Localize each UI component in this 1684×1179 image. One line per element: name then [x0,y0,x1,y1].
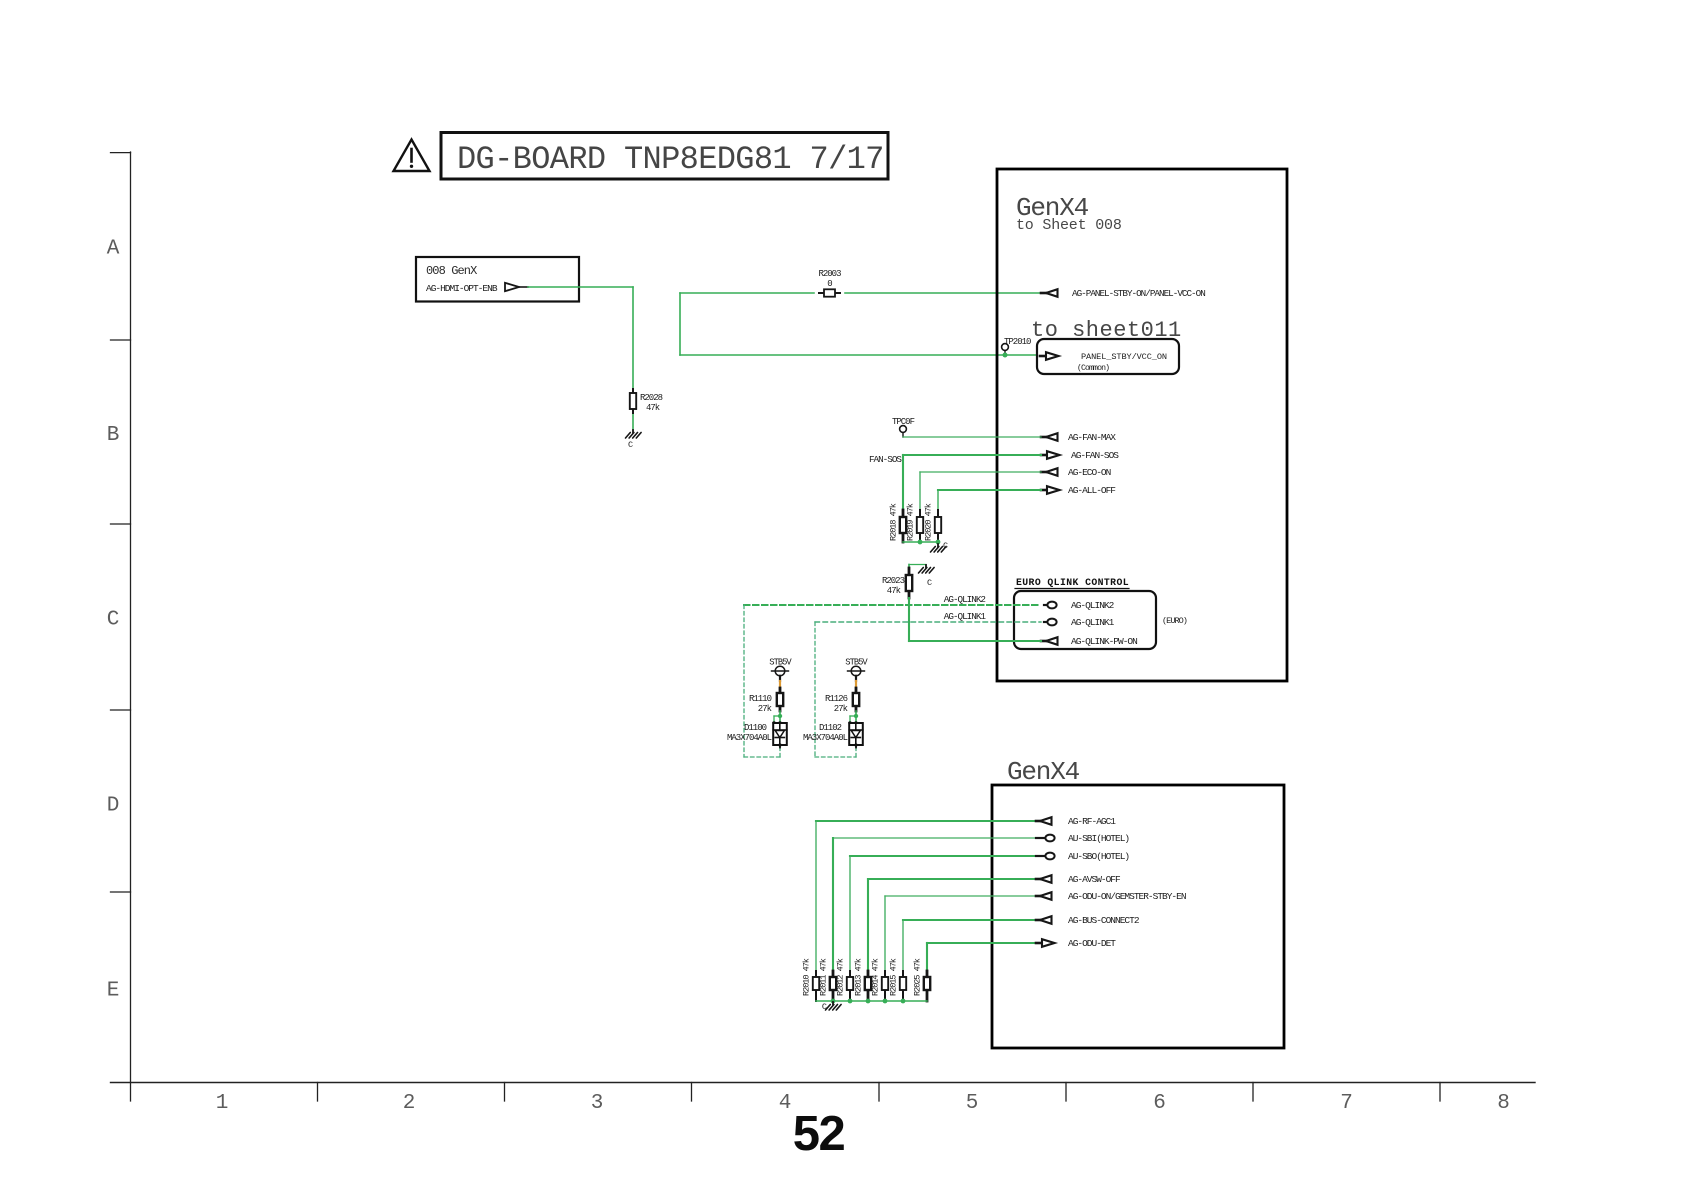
svg-text:to Sheet 008: to Sheet 008 [1016,217,1122,234]
svg-text:AG-AVSW-OFF: AG-AVSW-OFF [1068,874,1121,885]
svg-text:EURO QLINK CONTROL: EURO QLINK CONTROL [1016,577,1129,588]
svg-text:AG-FAN-MAX: AG-FAN-MAX [1068,432,1116,443]
svg-text:1: 1 [216,1092,229,1115]
svg-text:R2013 47k: R2013 47k [854,958,864,996]
svg-text:AG-QLINK2: AG-QLINK2 [944,594,986,605]
svg-text:C: C [628,440,633,450]
svg-text:MA3X704A0L: MA3X704A0L [803,733,848,743]
svg-text:E: E [107,980,120,1003]
svg-text:AG-QLINK-PW-ON: AG-QLINK-PW-ON [1071,636,1137,647]
svg-text:FAN-SOS: FAN-SOS [869,454,902,465]
svg-text:R2011 47k: R2011 47k [819,958,829,996]
svg-text:B: B [107,424,120,447]
svg-text:27k: 27k [758,704,772,714]
svg-text:PANEL_STBY/VCC_ON: PANEL_STBY/VCC_ON [1081,352,1167,362]
svg-text:R1110: R1110 [749,694,772,704]
svg-text:AG-ECO-ON: AG-ECO-ON [1068,467,1111,478]
svg-text:R2018 47k: R2018 47k [889,503,899,541]
svg-text:8: 8 [1497,1092,1510,1115]
svg-text:R2012 47k: R2012 47k [836,958,846,996]
svg-text:47k: 47k [887,586,901,596]
svg-text:R2023: R2023 [882,576,905,586]
svg-text:3: 3 [591,1092,604,1115]
svg-text:52: 52 [793,1107,845,1161]
svg-text:C: C [927,578,932,588]
svg-text:TPC0F: TPC0F [892,417,915,427]
svg-text:R2025 47k: R2025 47k [913,958,923,996]
svg-text:TP2010: TP2010 [1004,337,1031,347]
svg-text:D1100: D1100 [744,723,767,733]
svg-text:R2014 47k: R2014 47k [871,958,881,996]
svg-text:0: 0 [827,279,832,289]
svg-text:AU-SBI(HOTEL): AU-SBI(HOTEL) [1068,833,1129,844]
svg-text:AG-HDMI-OPT-ENB: AG-HDMI-OPT-ENB [426,283,498,294]
svg-text:MA3X704A0L: MA3X704A0L [727,733,772,743]
svg-text:R2003: R2003 [818,269,841,279]
svg-text:R1126: R1126 [825,694,848,704]
svg-text:D1102: D1102 [819,723,842,733]
svg-text:C: C [822,1002,827,1012]
svg-text:AG-ALL-OFF: AG-ALL-OFF [1068,485,1116,496]
svg-text:AG-QLINK2: AG-QLINK2 [1071,600,1115,611]
svg-text:AG-QLINK1: AG-QLINK1 [944,611,987,622]
svg-text:(EURO): (EURO) [1162,616,1187,626]
svg-text:47k: 47k [646,403,660,413]
svg-text:AG-QLINK1: AG-QLINK1 [1071,617,1115,628]
svg-text:4: 4 [779,1092,792,1115]
svg-text:C: C [107,609,120,632]
svg-text:A: A [107,238,120,261]
svg-text:AG-ODU-ON/GEMSTER-STBY-EN: AG-ODU-ON/GEMSTER-STBY-EN [1068,891,1186,902]
svg-text:AG-PANEL-STBY-ON/PANEL-VCC-ON: AG-PANEL-STBY-ON/PANEL-VCC-ON [1072,288,1205,299]
svg-text:R2028: R2028 [640,393,663,403]
svg-text:(Common): (Common) [1077,363,1109,373]
svg-text:DG-BOARD TNP8EDG81 7/17: DG-BOARD TNP8EDG81 7/17 [457,141,884,178]
svg-text:7: 7 [1340,1092,1353,1115]
svg-text:AG-FAN-SOS: AG-FAN-SOS [1071,450,1119,461]
svg-text:R2010 47k: R2010 47k [802,958,812,996]
svg-text:2: 2 [403,1092,416,1115]
svg-text:AG-ODU-DET: AG-ODU-DET [1068,938,1116,949]
svg-text:5: 5 [966,1092,979,1115]
svg-text:R2020 47k: R2020 47k [924,503,934,541]
svg-text:R2015 47k: R2015 47k [889,958,899,996]
svg-text:GenX4: GenX4 [1007,757,1080,787]
svg-text:AU-SBO(HOTEL): AU-SBO(HOTEL) [1068,851,1129,862]
svg-text:008 GenX: 008 GenX [426,264,477,278]
svg-text:AG-BUS-CONNECT2: AG-BUS-CONNECT2 [1068,915,1140,926]
svg-text:D: D [107,795,120,818]
svg-text:6: 6 [1153,1092,1166,1115]
svg-text:R2019 47k: R2019 47k [906,503,916,541]
svg-text:27k: 27k [834,704,848,714]
svg-text:AG-RF-AGC1: AG-RF-AGC1 [1068,816,1116,827]
